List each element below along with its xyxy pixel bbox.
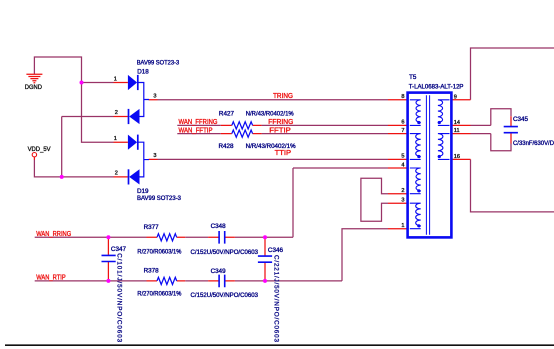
svg-text:BAV99 SOT23-3: BAV99 SOT23-3 (137, 60, 180, 67)
svg-text:C/152U/50V/NPO/C0603: C/152U/50V/NPO/C0603 (191, 249, 259, 256)
svg-text:R427: R427 (219, 110, 235, 117)
svg-text:T-LAL0683-ALT-12P: T-LAL0683-ALT-12P (409, 84, 464, 91)
svg-text:TRING: TRING (273, 93, 293, 100)
svg-text:C/152U/50V/NPO/C0603: C/152U/50V/NPO/C0603 (191, 292, 259, 299)
svg-text:N/R/43/R0402/1%: N/R/43/R0402/1% (246, 110, 294, 117)
svg-text:WAN_FFTIP: WAN_FFTIP (179, 127, 213, 134)
svg-text:C/33nF/630V/D: C/33nF/630V/D (513, 140, 554, 147)
svg-text:3: 3 (153, 153, 156, 159)
svg-text:WAN_RRING: WAN_RRING (36, 231, 71, 238)
svg-text:BAV99 SOT23-3: BAV99 SOT23-3 (137, 195, 181, 202)
svg-text:C349: C349 (211, 268, 227, 275)
svg-text:R377: R377 (144, 224, 160, 231)
svg-text:WAN_RTIP: WAN_RTIP (36, 275, 66, 282)
svg-text:VDD_5V: VDD_5V (28, 146, 52, 153)
svg-text:T5: T5 (409, 74, 417, 81)
svg-text:R378: R378 (144, 268, 160, 275)
svg-text:2: 2 (401, 188, 404, 194)
svg-text:3: 3 (401, 198, 404, 204)
svg-text:TTIP: TTIP (275, 150, 292, 157)
svg-text:2: 2 (115, 171, 118, 177)
svg-text:C346: C346 (268, 247, 284, 254)
svg-text:8: 8 (401, 94, 404, 100)
svg-text:FFTIP: FFTIP (269, 127, 291, 134)
svg-text:9: 9 (454, 94, 457, 100)
svg-text:D18: D18 (137, 68, 149, 75)
svg-text:R428: R428 (219, 143, 235, 150)
svg-text:16: 16 (454, 154, 460, 160)
svg-text:R/270/R0603/1%: R/270/R0603/1% (137, 291, 181, 298)
svg-text:1: 1 (114, 76, 117, 82)
svg-text:4: 4 (401, 162, 404, 168)
svg-text:1: 1 (401, 223, 404, 229)
svg-text:C/221/J/50V/NPO/C0603: C/221/J/50V/NPO/C0603 (272, 255, 279, 342)
svg-text:2: 2 (115, 110, 118, 116)
svg-text:C347: C347 (111, 246, 127, 253)
svg-text:C/101/J/50V/NPO/C0603: C/101/J/50V/NPO/C0603 (115, 253, 122, 342)
svg-text:N/R/43/R0402/1%: N/R/43/R0402/1% (246, 143, 296, 150)
svg-text:C345: C345 (513, 116, 529, 123)
svg-text:R/270/R0603/1%: R/270/R0603/1% (137, 249, 181, 256)
svg-text:WAN_FFRING: WAN_FFRING (179, 119, 218, 126)
svg-text:C348: C348 (211, 223, 227, 230)
svg-text:7: 7 (401, 128, 404, 134)
svg-text:11: 11 (454, 128, 460, 134)
svg-text:FFRING: FFRING (268, 119, 293, 126)
svg-text:14: 14 (454, 120, 460, 126)
svg-text:DGND: DGND (25, 84, 42, 91)
svg-text:3: 3 (153, 94, 156, 100)
svg-text:1: 1 (114, 136, 117, 142)
svg-text:6: 6 (401, 120, 404, 126)
svg-text:5: 5 (401, 154, 404, 160)
